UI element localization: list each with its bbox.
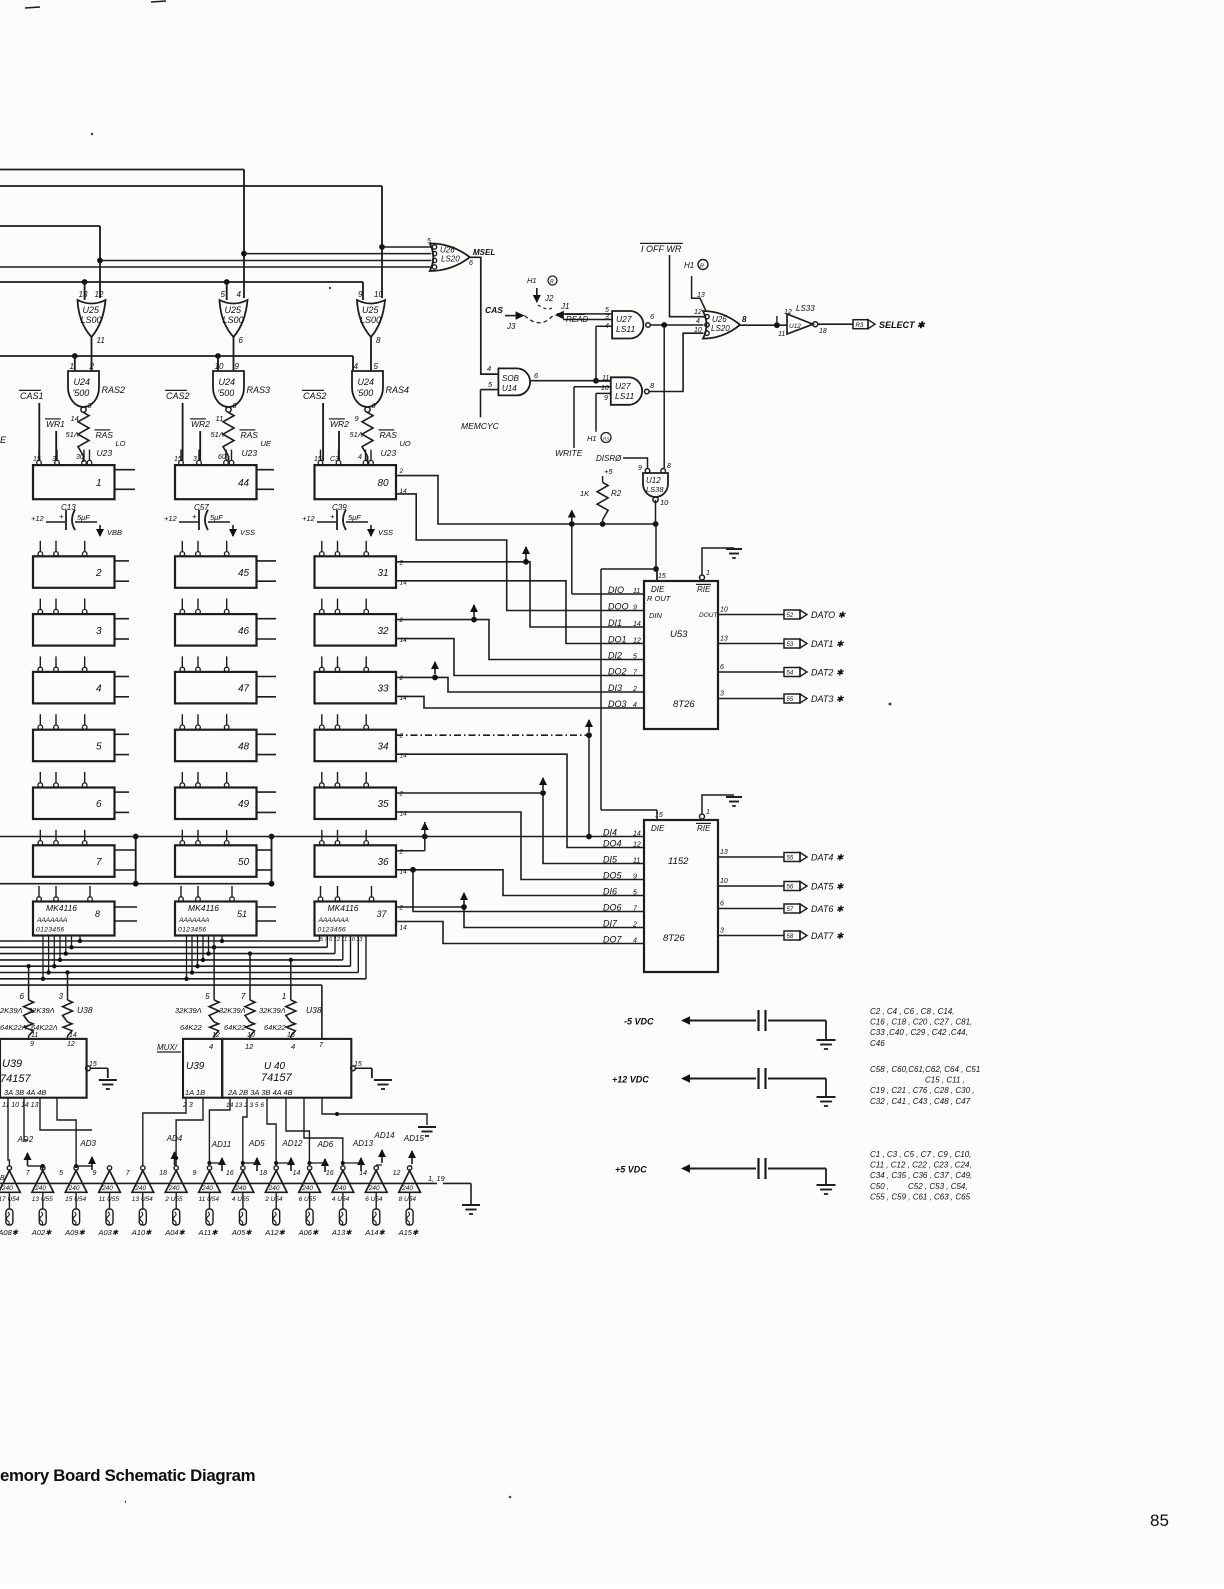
svg-text:12: 12 [694, 309, 702, 316]
svg-text:RAS2: RAS2 [102, 385, 126, 395]
svg-text:5: 5 [96, 742, 102, 753]
svg-text:'500: '500 [73, 388, 90, 398]
svg-text:14: 14 [400, 637, 408, 644]
svg-text:DO7: DO7 [603, 934, 623, 944]
svg-text:C57: C57 [194, 503, 209, 512]
svg-text:1: 1 [706, 570, 710, 577]
svg-text:WR2: WR2 [330, 419, 349, 429]
svg-text:'500: '500 [357, 388, 374, 398]
svg-text:DO1: DO1 [608, 634, 627, 644]
svg-text:14: 14 [400, 811, 408, 818]
svg-text:C46: C46 [870, 1039, 885, 1048]
svg-text:54: 54 [787, 671, 794, 677]
svg-text:46: 46 [238, 626, 250, 637]
svg-text:6: 6 [720, 901, 724, 908]
svg-text:2: 2 [89, 362, 95, 371]
svg-text:C11 , C12 , C22 , C23 , C24,: C11 , C12 , C22 , C23 , C24, [870, 1161, 972, 1170]
svg-text:UE: UE [261, 439, 272, 448]
svg-text:11: 11 [633, 857, 640, 864]
svg-text:WR2: WR2 [191, 419, 210, 429]
svg-text:48: 48 [238, 742, 250, 753]
svg-text:15: 15 [658, 573, 666, 580]
svg-text:A09✱: A09✱ [64, 1228, 85, 1237]
svg-text:RAS: RAS [96, 430, 114, 440]
svg-text:A A A A A A A: A A A A A A A [318, 917, 350, 924]
svg-text:U25: U25 [225, 305, 243, 315]
svg-text:C2 , C4 , C6 , C8 , C14,: C2 , C4 , C6 , C8 , C14, [870, 1007, 954, 1016]
svg-text:14: 14 [400, 753, 408, 760]
svg-text:2 3: 2 3 [182, 1102, 193, 1109]
svg-text:58: 58 [787, 934, 794, 940]
svg-text:C50 ,: C50 , [870, 1182, 889, 1191]
svg-text:8: 8 [667, 463, 671, 470]
svg-text:4: 4 [237, 290, 242, 299]
svg-text:4: 4 [633, 937, 637, 944]
svg-text:2: 2 [399, 791, 404, 798]
svg-text:5: 5 [427, 238, 431, 245]
svg-text:9: 9 [633, 873, 637, 880]
svg-text:MSEL: MSEL [473, 248, 495, 257]
svg-text:U24: U24 [74, 377, 91, 387]
svg-text:VSS: VSS [240, 528, 255, 537]
svg-text:B: B [0, 1175, 5, 1182]
svg-text:CAS: CAS [485, 305, 503, 315]
svg-text:3: 3 [193, 456, 197, 463]
svg-text:C13: C13 [61, 503, 76, 512]
svg-text:SELECT ✱: SELECT ✱ [879, 320, 926, 330]
svg-text:14: 14 [400, 695, 408, 702]
svg-text:7: 7 [241, 992, 246, 1001]
svg-text:2K39Λ: 2K39Λ [0, 1006, 23, 1015]
svg-text:C19 , C21 , C76 , C28 , C3: C19 , C21 , C76 , C28 , C30 , [870, 1086, 975, 1095]
svg-text:5 7 6 12 11 10 13: 5 7 6 12 11 10 13 [320, 937, 363, 943]
svg-text:64K22: 64K22 [180, 1023, 203, 1032]
svg-text:R3: R3 [603, 437, 609, 442]
svg-text:14 13 2 3 5 6: 14 13 2 3 5 6 [226, 1102, 264, 1109]
svg-text:34: 34 [378, 742, 390, 753]
svg-text:DI2: DI2 [608, 650, 622, 660]
svg-text:18: 18 [159, 1170, 167, 1177]
svg-text:6: 6 [96, 799, 102, 810]
svg-text:R OUT: R OUT [647, 594, 672, 603]
svg-text:12: 12 [633, 841, 641, 848]
svg-text:DI4: DI4 [603, 827, 617, 837]
svg-text:AD4: AD4 [166, 1134, 183, 1143]
svg-text:CAS2: CAS2 [303, 391, 327, 401]
svg-text:+12: +12 [164, 514, 178, 523]
svg-text:2: 2 [632, 921, 637, 928]
svg-text:12: 12 [633, 637, 641, 644]
svg-text:VSS: VSS [378, 528, 393, 537]
svg-text:9: 9 [193, 1170, 197, 1177]
svg-text:5μF: 5μF [348, 513, 361, 522]
svg-text:11: 11 [633, 588, 640, 595]
svg-text:10: 10 [601, 385, 609, 392]
svg-text:1, 19: 1, 19 [428, 1174, 446, 1183]
svg-text:0 1 2 3 4 5 6: 0 1 2 3 4 5 6 [36, 927, 64, 934]
svg-text:DO5: DO5 [603, 870, 623, 880]
svg-text:2: 2 [399, 848, 404, 855]
svg-text:+12: +12 [302, 514, 316, 523]
svg-text:37: 37 [377, 909, 388, 919]
svg-text:DO4: DO4 [603, 838, 622, 848]
svg-text:U25: U25 [83, 305, 101, 315]
svg-text:DIN: DIN [649, 611, 663, 620]
svg-text:3: 3 [720, 691, 724, 698]
svg-text:C3: C3 [330, 456, 339, 463]
svg-text:U53: U53 [670, 629, 688, 640]
svg-text:+: + [59, 512, 64, 521]
svg-text:6 U55: 6 U55 [299, 1196, 317, 1203]
svg-text:DATO ✱: DATO ✱ [811, 610, 847, 620]
svg-text:U26: U26 [712, 315, 727, 324]
svg-text:240: 240 [201, 1185, 213, 1192]
svg-text:18: 18 [819, 328, 827, 335]
svg-text:H1: H1 [527, 276, 537, 285]
svg-text:10: 10 [660, 498, 669, 507]
svg-text:U14: U14 [502, 384, 517, 393]
svg-text:U12: U12 [789, 323, 801, 330]
svg-text:1: 1 [70, 362, 74, 371]
svg-text:240: 240 [1, 1185, 13, 1192]
svg-text:DIO: DIO [608, 585, 624, 595]
svg-text:-5 VDC: -5 VDC [624, 1017, 654, 1027]
svg-text:32K39Λ: 32K39Λ [28, 1006, 55, 1015]
svg-text:2 U55: 2 U55 [164, 1196, 183, 1203]
svg-text:4: 4 [487, 364, 491, 373]
svg-text:36: 36 [378, 857, 390, 868]
svg-text:14: 14 [400, 488, 408, 495]
svg-text:32: 32 [378, 626, 390, 637]
svg-text:DISRØ: DISRØ [596, 454, 622, 463]
svg-text:52: 52 [787, 613, 794, 619]
svg-text:10: 10 [694, 327, 702, 334]
svg-text:LO: LO [116, 439, 126, 448]
svg-text:9: 9 [633, 604, 637, 611]
svg-text:51Λ: 51Λ [66, 430, 79, 439]
svg-text:CAS2: CAS2 [166, 391, 190, 401]
svg-text:3: 3 [96, 626, 102, 637]
svg-text:14: 14 [359, 1170, 367, 1177]
svg-text:0 1 2 3 4 5 6: 0 1 2 3 4 5 6 [318, 927, 346, 934]
svg-text:RIE: RIE [697, 824, 711, 833]
svg-text:LS00: LS00 [360, 315, 381, 325]
svg-text:47: 47 [238, 684, 250, 695]
svg-text:A14✱: A14✱ [364, 1228, 385, 1237]
svg-text:U39: U39 [2, 1058, 22, 1070]
svg-text:49: 49 [238, 799, 250, 810]
svg-text:13: 13 [79, 290, 88, 299]
svg-text:J1: J1 [560, 302, 569, 311]
svg-text:12: 12 [245, 1042, 254, 1051]
svg-text:240: 240 [268, 1185, 280, 1192]
svg-text:LS00: LS00 [223, 315, 244, 325]
svg-text:DAT7 ✱: DAT7 ✱ [811, 931, 845, 941]
svg-text:U24: U24 [219, 377, 236, 387]
svg-text:14: 14 [633, 830, 641, 837]
svg-text:240: 240 [368, 1185, 380, 1192]
svg-text:LS20: LS20 [441, 255, 460, 264]
svg-text:8 U54: 8 U54 [399, 1196, 417, 1203]
svg-text:I OFF WR: I OFF WR [641, 244, 682, 254]
svg-text:AD5: AD5 [248, 1139, 265, 1148]
svg-text:5: 5 [59, 1170, 63, 1177]
svg-text:12: 12 [67, 1041, 75, 1048]
svg-text:C33 ,C40 , C29 , C42 ,C44,: C33 ,C40 , C29 , C42 ,C44, [870, 1028, 968, 1037]
svg-text:3: 3 [59, 992, 64, 1001]
svg-text:H1: H1 [587, 434, 597, 443]
svg-text:6 U54: 6 U54 [365, 1196, 383, 1203]
svg-text:U24: U24 [358, 377, 375, 387]
svg-text:RAS3: RAS3 [247, 385, 271, 395]
svg-text:10: 10 [720, 607, 728, 614]
svg-text:6: 6 [20, 992, 25, 1001]
svg-text:C16 , C18 , C20 , C27 , C81,: C16 , C18 , C20 , C27 , C81, [870, 1018, 972, 1027]
svg-text:4: 4 [354, 362, 359, 371]
svg-text:6: 6 [239, 336, 244, 345]
svg-text:LS11: LS11 [616, 324, 635, 334]
svg-text:4: 4 [291, 1042, 295, 1051]
svg-text:RAS4: RAS4 [386, 385, 410, 395]
svg-text:RAS: RAS [380, 430, 398, 440]
svg-text:A04✱: A04✱ [164, 1228, 185, 1237]
svg-text:5: 5 [374, 362, 379, 371]
svg-text:55: 55 [787, 697, 794, 703]
svg-text:2: 2 [399, 559, 404, 566]
svg-text:U23: U23 [97, 448, 113, 458]
svg-text:45: 45 [238, 568, 250, 579]
svg-text:MK4116: MK4116 [46, 903, 77, 913]
svg-text:U12: U12 [646, 476, 661, 485]
svg-text:4: 4 [96, 684, 102, 695]
svg-text:J3: J3 [506, 322, 516, 331]
svg-text:C55 , C59 , C61 , C63 , C6: C55 , C59 , C61 , C63 , C65 [870, 1192, 971, 1201]
svg-text:2: 2 [399, 905, 404, 912]
svg-text:DOO: DOO [608, 601, 629, 611]
svg-text:LS20: LS20 [711, 324, 730, 333]
svg-text:A06✱: A06✱ [298, 1228, 319, 1237]
svg-text:2: 2 [399, 675, 404, 682]
svg-text:16: 16 [326, 1170, 334, 1177]
svg-text:C34 , C35 , C36 , C37 , C4: C34 , C35 , C36 , C37 , C49, [870, 1171, 972, 1180]
svg-text:74157: 74157 [0, 1073, 31, 1085]
svg-text:32K39Λ: 32K39Λ [259, 1006, 286, 1015]
svg-text:13: 13 [720, 849, 728, 856]
svg-text:4: 4 [696, 318, 700, 325]
svg-text:,: , [124, 1494, 127, 1505]
svg-text:U27: U27 [615, 381, 631, 391]
svg-text:A03✱: A03✱ [98, 1228, 119, 1237]
svg-text:DAT2 ✱: DAT2 ✱ [811, 668, 845, 678]
svg-text:80: 80 [378, 478, 390, 489]
svg-text:DAT5 ✱: DAT5 ✱ [811, 882, 845, 892]
svg-text:12: 12 [95, 290, 104, 299]
svg-text:UO: UO [400, 439, 411, 448]
svg-text:16: 16 [226, 1170, 234, 1177]
svg-text:64K22Λ: 64K22Λ [0, 1023, 27, 1032]
svg-text:RIE: RIE [697, 585, 711, 594]
svg-text:51Λ: 51Λ [211, 430, 224, 439]
svg-text:15: 15 [655, 812, 663, 819]
svg-text:+12: +12 [31, 514, 45, 523]
svg-text:3: 3 [52, 456, 56, 463]
svg-text:AD6: AD6 [317, 1140, 334, 1149]
svg-text:44: 44 [238, 478, 250, 489]
svg-text:8T26: 8T26 [673, 699, 695, 710]
svg-text:2A 2B 3A 3B 4A 4B: 2A 2B 3A 3B 4A 4B [227, 1088, 293, 1097]
svg-text:U38: U38 [77, 1005, 93, 1015]
svg-text:WR1: WR1 [46, 419, 65, 429]
svg-text:4: 4 [209, 1042, 213, 1051]
svg-text:2: 2 [632, 686, 637, 693]
svg-text:U23: U23 [242, 448, 258, 458]
svg-text:240: 240 [68, 1185, 80, 1192]
svg-text:DAT3 ✱: DAT3 ✱ [811, 694, 845, 704]
svg-text:51: 51 [237, 909, 247, 919]
svg-text:10: 10 [374, 290, 383, 299]
svg-text:1: 1 [96, 478, 102, 489]
svg-text:R2: R2 [611, 489, 622, 498]
svg-text:12: 12 [393, 1170, 401, 1177]
svg-text:74157: 74157 [261, 1072, 292, 1084]
svg-text:5μF: 5μF [210, 513, 223, 522]
svg-text:9: 9 [93, 1170, 97, 1177]
svg-text:1A 1B: 1A 1B [185, 1088, 205, 1097]
svg-text:1: 1 [706, 809, 710, 816]
svg-text:4 U54: 4 U54 [332, 1196, 350, 1203]
svg-text:AD14: AD14 [374, 1131, 396, 1140]
svg-text:emory Board Schematic Diagram: emory Board Schematic Diagram [0, 1466, 255, 1485]
svg-text:2: 2 [399, 617, 404, 624]
svg-text:10: 10 [720, 878, 728, 885]
svg-text:0 1 2 3 4 5 6: 0 1 2 3 4 5 6 [178, 927, 206, 934]
svg-text:240: 240 [401, 1185, 413, 1192]
svg-text:14: 14 [293, 1170, 301, 1177]
svg-text:3: 3 [605, 314, 609, 321]
svg-text:6: 6 [720, 664, 724, 671]
svg-text:AD13: AD13 [352, 1139, 374, 1148]
svg-text:RAS: RAS [241, 430, 259, 440]
svg-text:DIE: DIE [651, 824, 665, 833]
svg-text:14: 14 [400, 579, 408, 586]
svg-text:'500: '500 [218, 388, 235, 398]
svg-text:240: 240 [234, 1185, 246, 1192]
svg-text:+: + [330, 512, 335, 521]
svg-text:56: 56 [787, 885, 794, 891]
svg-text:DOUT: DOUT [699, 612, 718, 619]
svg-text:9: 9 [30, 1041, 34, 1048]
svg-text:VBB: VBB [107, 528, 122, 537]
svg-text:9: 9 [235, 362, 240, 371]
svg-text:C58 , C60,C61,C62, C64 , C51: C58 , C60,C61,C62, C64 , C51 [870, 1065, 980, 1074]
svg-text:64K22Λ: 64K22Λ [31, 1023, 58, 1032]
svg-text:1: 1 [282, 992, 286, 1001]
svg-text:32K39Λ: 32K39Λ [175, 1006, 202, 1015]
svg-text:A05✱: A05✱ [231, 1228, 252, 1237]
svg-text:53: 53 [787, 642, 794, 648]
svg-text:U27: U27 [616, 314, 632, 324]
svg-text:4: 4 [605, 323, 609, 330]
svg-text:85: 85 [1150, 1511, 1169, 1530]
svg-text:2: 2 [399, 468, 404, 475]
svg-text:H1: H1 [684, 261, 694, 270]
svg-text:2 U54: 2 U54 [264, 1196, 283, 1203]
svg-text:U38: U38 [306, 1005, 322, 1015]
svg-text:15: 15 [33, 456, 41, 463]
svg-text:4: 4 [358, 454, 362, 461]
svg-text:64K22: 64K22 [264, 1023, 287, 1032]
svg-text:MUX/: MUX/ [157, 1043, 178, 1052]
svg-text:DI3: DI3 [608, 683, 622, 693]
svg-text:R: R [550, 279, 554, 285]
svg-text:5μF: 5μF [77, 513, 90, 522]
svg-text:LS38: LS38 [646, 485, 664, 494]
svg-text:DI5: DI5 [603, 854, 618, 864]
svg-text:32K39Λ: 32K39Λ [219, 1006, 246, 1015]
svg-text:14: 14 [400, 868, 408, 875]
svg-text:A12✱: A12✱ [264, 1228, 285, 1237]
svg-text:DI1: DI1 [608, 618, 622, 628]
svg-text:15: 15 [89, 1061, 97, 1068]
svg-text:3: 3 [720, 928, 724, 935]
svg-text:R: R [700, 264, 704, 270]
svg-text:AD3: AD3 [79, 1139, 96, 1148]
svg-text:C15 , C11 ,: C15 , C11 , [925, 1076, 965, 1085]
svg-text:U26: U26 [440, 246, 455, 255]
svg-text:240: 240 [168, 1185, 180, 1192]
svg-text:WRITE: WRITE [555, 448, 583, 458]
svg-text:C32 , C41 , C43 , C48 , C47: C32 , C41 , C43 , C48 , C47 [870, 1097, 971, 1106]
svg-text:A A A A A A A: A A A A A A A [36, 917, 68, 924]
svg-text:U 40: U 40 [264, 1061, 286, 1072]
svg-text:5: 5 [221, 290, 226, 299]
svg-text:U23: U23 [381, 448, 397, 458]
svg-text:DI6: DI6 [603, 886, 617, 896]
svg-text:60: 60 [218, 454, 226, 461]
svg-text:+5 VDC: +5 VDC [615, 1165, 647, 1175]
svg-text:35: 35 [378, 799, 390, 810]
svg-text:A A A A A A A: A A A A A A A [178, 917, 210, 924]
svg-text:DAT6 ✱: DAT6 ✱ [811, 904, 845, 914]
svg-text:READ: READ [566, 315, 588, 324]
svg-text:1152: 1152 [668, 856, 689, 867]
svg-text:30: 30 [76, 454, 84, 461]
svg-text:240: 240 [101, 1185, 113, 1192]
svg-text:8: 8 [95, 909, 100, 919]
svg-text:+: + [192, 512, 197, 521]
svg-text:9: 9 [604, 395, 608, 402]
svg-text:1K: 1K [580, 489, 590, 498]
svg-text:A08✱: A08✱ [0, 1228, 19, 1237]
svg-text:13: 13 [720, 636, 728, 643]
svg-text:R3: R3 [856, 323, 864, 329]
svg-text:A13✱: A13✱ [331, 1228, 352, 1237]
svg-text:9: 9 [638, 465, 642, 472]
svg-text:2: 2 [95, 568, 102, 579]
svg-text:C39: C39 [332, 503, 347, 512]
svg-text:C52 , C53 , C54,: C52 , C53 , C54, [908, 1182, 968, 1191]
svg-text:31: 31 [378, 568, 389, 579]
svg-text:A10✱: A10✱ [131, 1228, 152, 1237]
svg-text:7: 7 [96, 857, 102, 868]
svg-text:51Λ: 51Λ [350, 430, 363, 439]
svg-text:11: 11 [97, 336, 105, 345]
svg-text:64K22: 64K22 [224, 1023, 247, 1032]
svg-text:DO2: DO2 [608, 666, 627, 676]
svg-text:13: 13 [697, 292, 705, 299]
svg-text:5: 5 [205, 992, 210, 1001]
svg-text:15: 15 [354, 1061, 362, 1068]
